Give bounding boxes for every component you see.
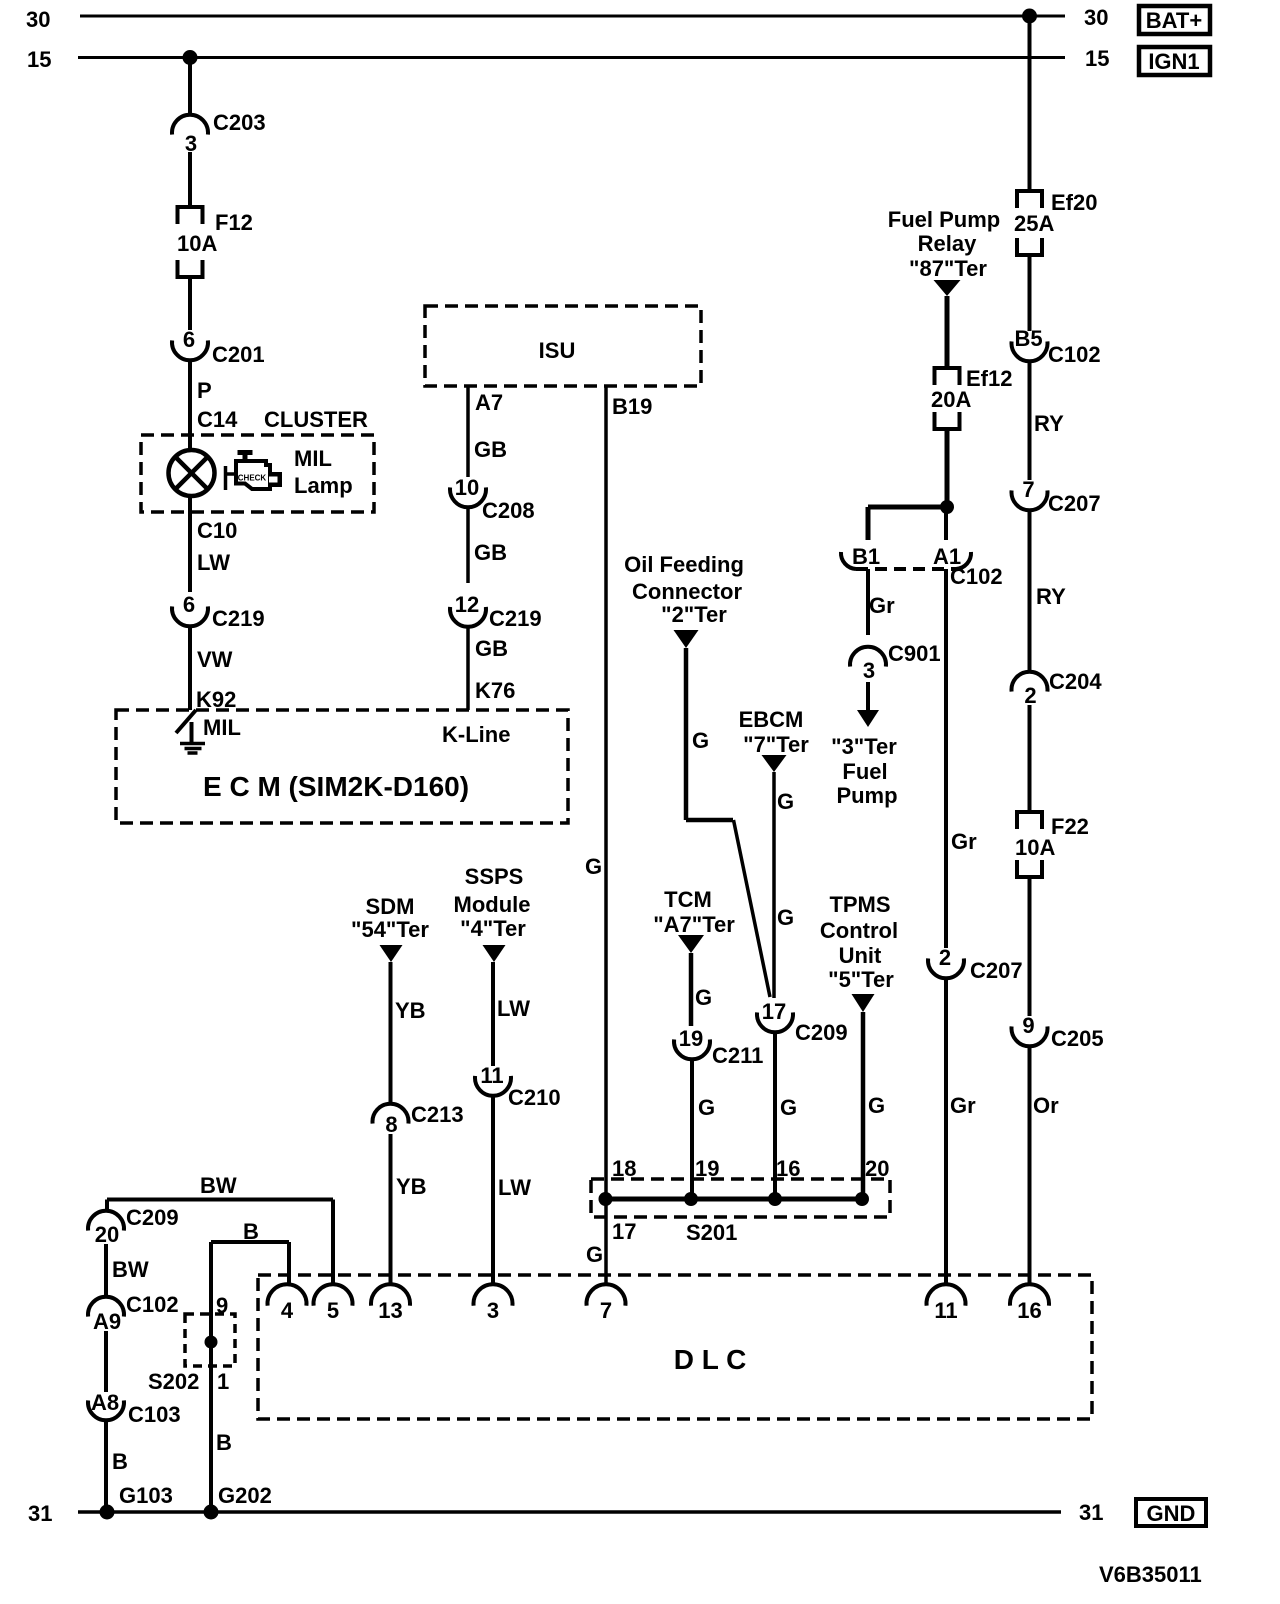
- svg-text:C208: C208: [482, 498, 535, 523]
- svg-text:30: 30: [26, 7, 50, 32]
- svg-text:EBCM: EBCM: [739, 707, 804, 732]
- svg-text:4: 4: [281, 1298, 294, 1323]
- svg-text:C203: C203: [213, 110, 266, 135]
- svg-text:TCM: TCM: [664, 887, 712, 912]
- svg-text:1: 1: [217, 1369, 229, 1394]
- svg-text:C14: C14: [197, 407, 238, 432]
- svg-text:C204: C204: [1049, 669, 1102, 694]
- svg-text:19: 19: [695, 1156, 719, 1181]
- svg-text:C10: C10: [197, 518, 237, 543]
- svg-text:D L C: D L C: [674, 1344, 747, 1375]
- svg-text:"2"Ter: "2"Ter: [661, 602, 727, 627]
- svg-text:16: 16: [1017, 1298, 1041, 1323]
- svg-text:G: G: [695, 985, 712, 1010]
- svg-text:BW: BW: [112, 1257, 149, 1282]
- svg-text:Ef20: Ef20: [1051, 190, 1097, 215]
- svg-text:C205: C205: [1051, 1026, 1104, 1051]
- svg-text:G103: G103: [119, 1483, 173, 1508]
- svg-text:S202: S202: [148, 1369, 199, 1394]
- svg-text:13: 13: [378, 1298, 402, 1323]
- svg-text:K76: K76: [475, 678, 515, 703]
- svg-text:"4"Ter: "4"Ter: [460, 916, 526, 941]
- svg-text:G: G: [586, 1242, 603, 1267]
- svg-text:6: 6: [183, 327, 195, 352]
- svg-text:C103: C103: [128, 1402, 181, 1427]
- svg-text:Ef12: Ef12: [966, 366, 1012, 391]
- svg-text:10: 10: [455, 475, 479, 500]
- svg-text:Module: Module: [454, 892, 531, 917]
- svg-text:K-Line: K-Line: [442, 722, 510, 747]
- svg-text:S201: S201: [686, 1220, 737, 1245]
- svg-text:B19: B19: [612, 394, 652, 419]
- svg-text:LW: LW: [498, 1175, 531, 1200]
- svg-text:GND: GND: [1147, 1501, 1196, 1526]
- svg-text:RY: RY: [1036, 584, 1066, 609]
- svg-text:2: 2: [939, 945, 951, 970]
- svg-text:C211: C211: [712, 1043, 763, 1068]
- svg-text:C219: C219: [489, 606, 542, 631]
- svg-text:C102: C102: [1048, 342, 1101, 367]
- svg-text:Connector: Connector: [632, 579, 742, 604]
- svg-text:IGN1: IGN1: [1148, 49, 1199, 74]
- svg-text:3: 3: [487, 1298, 499, 1323]
- svg-text:Or: Or: [1033, 1093, 1059, 1118]
- svg-text:2: 2: [1024, 683, 1036, 708]
- svg-text:MIL: MIL: [203, 715, 241, 740]
- svg-text:31: 31: [1079, 1500, 1103, 1525]
- svg-text:RY: RY: [1034, 411, 1064, 436]
- svg-text:CLUSTER: CLUSTER: [264, 407, 368, 432]
- svg-text:25A: 25A: [1014, 211, 1054, 236]
- svg-text:VW: VW: [197, 647, 233, 672]
- svg-text:YB: YB: [395, 998, 426, 1023]
- svg-text:P: P: [197, 378, 212, 403]
- svg-text:5: 5: [327, 1298, 339, 1323]
- svg-text:15: 15: [27, 47, 51, 72]
- svg-text:C901: C901: [888, 641, 941, 666]
- svg-text:C213: C213: [411, 1102, 464, 1127]
- svg-text:SDM: SDM: [366, 894, 415, 919]
- svg-text:20A: 20A: [931, 387, 971, 412]
- svg-text:20: 20: [865, 1156, 889, 1181]
- svg-text:G: G: [585, 854, 602, 879]
- svg-text:8: 8: [385, 1112, 397, 1137]
- svg-text:TPMS: TPMS: [829, 892, 890, 917]
- svg-text:G: G: [777, 905, 794, 930]
- svg-text:15: 15: [1085, 46, 1109, 71]
- svg-text:"87"Ter: "87"Ter: [909, 256, 987, 281]
- svg-text:A9: A9: [93, 1309, 121, 1334]
- svg-text:Gr: Gr: [951, 829, 977, 854]
- svg-text:17: 17: [762, 999, 786, 1024]
- svg-text:18: 18: [612, 1156, 636, 1181]
- svg-text:19: 19: [679, 1026, 703, 1051]
- svg-text:CHECK: CHECK: [238, 474, 267, 483]
- svg-text:E C M (SIM2K-D160): E C M (SIM2K-D160): [203, 771, 469, 802]
- svg-text:Lamp: Lamp: [294, 473, 353, 498]
- svg-text:Relay: Relay: [918, 231, 977, 256]
- svg-text:A7: A7: [475, 390, 503, 415]
- svg-text:GB: GB: [474, 437, 507, 462]
- svg-text:C102: C102: [126, 1292, 179, 1317]
- svg-text:30: 30: [1084, 5, 1108, 30]
- svg-text:"54"Ter: "54"Ter: [351, 917, 429, 942]
- svg-text:MIL: MIL: [294, 446, 332, 471]
- svg-text:31: 31: [28, 1501, 52, 1526]
- svg-text:B1: B1: [852, 544, 880, 569]
- svg-text:GB: GB: [475, 636, 508, 661]
- svg-text:Fuel: Fuel: [842, 759, 887, 784]
- svg-text:3: 3: [863, 658, 875, 683]
- svg-text:"7"Ter: "7"Ter: [743, 732, 809, 757]
- svg-text:B: B: [216, 1430, 232, 1455]
- svg-text:A8: A8: [91, 1390, 119, 1415]
- svg-text:GB: GB: [474, 540, 507, 565]
- svg-text:BAT+: BAT+: [1146, 8, 1202, 33]
- svg-text:"3"Ter: "3"Ter: [831, 734, 897, 759]
- svg-text:C207: C207: [1048, 491, 1101, 516]
- svg-text:F22: F22: [1051, 814, 1089, 839]
- svg-text:Gr: Gr: [950, 1093, 976, 1118]
- svg-text:10A: 10A: [1015, 835, 1055, 860]
- svg-text:LW: LW: [497, 996, 530, 1021]
- svg-text:C210: C210: [508, 1085, 561, 1110]
- svg-text:7: 7: [600, 1298, 612, 1323]
- svg-text:11: 11: [480, 1063, 503, 1088]
- svg-text:G: G: [698, 1095, 715, 1120]
- svg-text:C209: C209: [126, 1205, 179, 1230]
- svg-text:G: G: [780, 1095, 797, 1120]
- svg-text:Pump: Pump: [836, 783, 897, 808]
- svg-text:Oil Feeding: Oil Feeding: [624, 552, 744, 577]
- svg-text:Gr: Gr: [869, 593, 895, 618]
- svg-text:G202: G202: [218, 1483, 272, 1508]
- svg-text:Control: Control: [820, 918, 898, 943]
- svg-text:11: 11: [934, 1298, 957, 1323]
- svg-text:10A: 10A: [177, 231, 217, 256]
- svg-text:"5"Ter: "5"Ter: [828, 967, 894, 992]
- svg-text:G: G: [868, 1093, 885, 1118]
- svg-text:20: 20: [95, 1222, 119, 1247]
- svg-text:17: 17: [612, 1219, 636, 1244]
- svg-text:C219: C219: [212, 606, 265, 631]
- svg-text:9: 9: [1022, 1013, 1034, 1038]
- svg-text:SSPS: SSPS: [465, 864, 524, 889]
- svg-text:ISU: ISU: [539, 338, 576, 363]
- svg-text:Fuel Pump: Fuel Pump: [888, 207, 1000, 232]
- svg-text:V6B35011: V6B35011: [1099, 1562, 1202, 1587]
- svg-text:YB: YB: [396, 1174, 427, 1199]
- svg-text:C207: C207: [970, 958, 1023, 983]
- svg-text:G: G: [692, 728, 709, 753]
- svg-text:12: 12: [455, 592, 479, 617]
- svg-text:B: B: [112, 1449, 128, 1474]
- svg-text:16: 16: [776, 1156, 800, 1181]
- svg-text:G: G: [777, 789, 794, 814]
- svg-text:"A7"Ter: "A7"Ter: [653, 912, 735, 937]
- svg-text:C102: C102: [950, 564, 1003, 589]
- svg-text:C209: C209: [795, 1020, 848, 1045]
- svg-text:B5: B5: [1014, 326, 1042, 351]
- svg-text:F12: F12: [215, 210, 253, 235]
- svg-text:7: 7: [1022, 477, 1034, 502]
- svg-text:6: 6: [183, 592, 195, 617]
- svg-text:BW: BW: [200, 1173, 237, 1198]
- svg-text:C201: C201: [212, 342, 265, 367]
- svg-text:LW: LW: [197, 550, 230, 575]
- svg-text:Unit: Unit: [839, 943, 882, 968]
